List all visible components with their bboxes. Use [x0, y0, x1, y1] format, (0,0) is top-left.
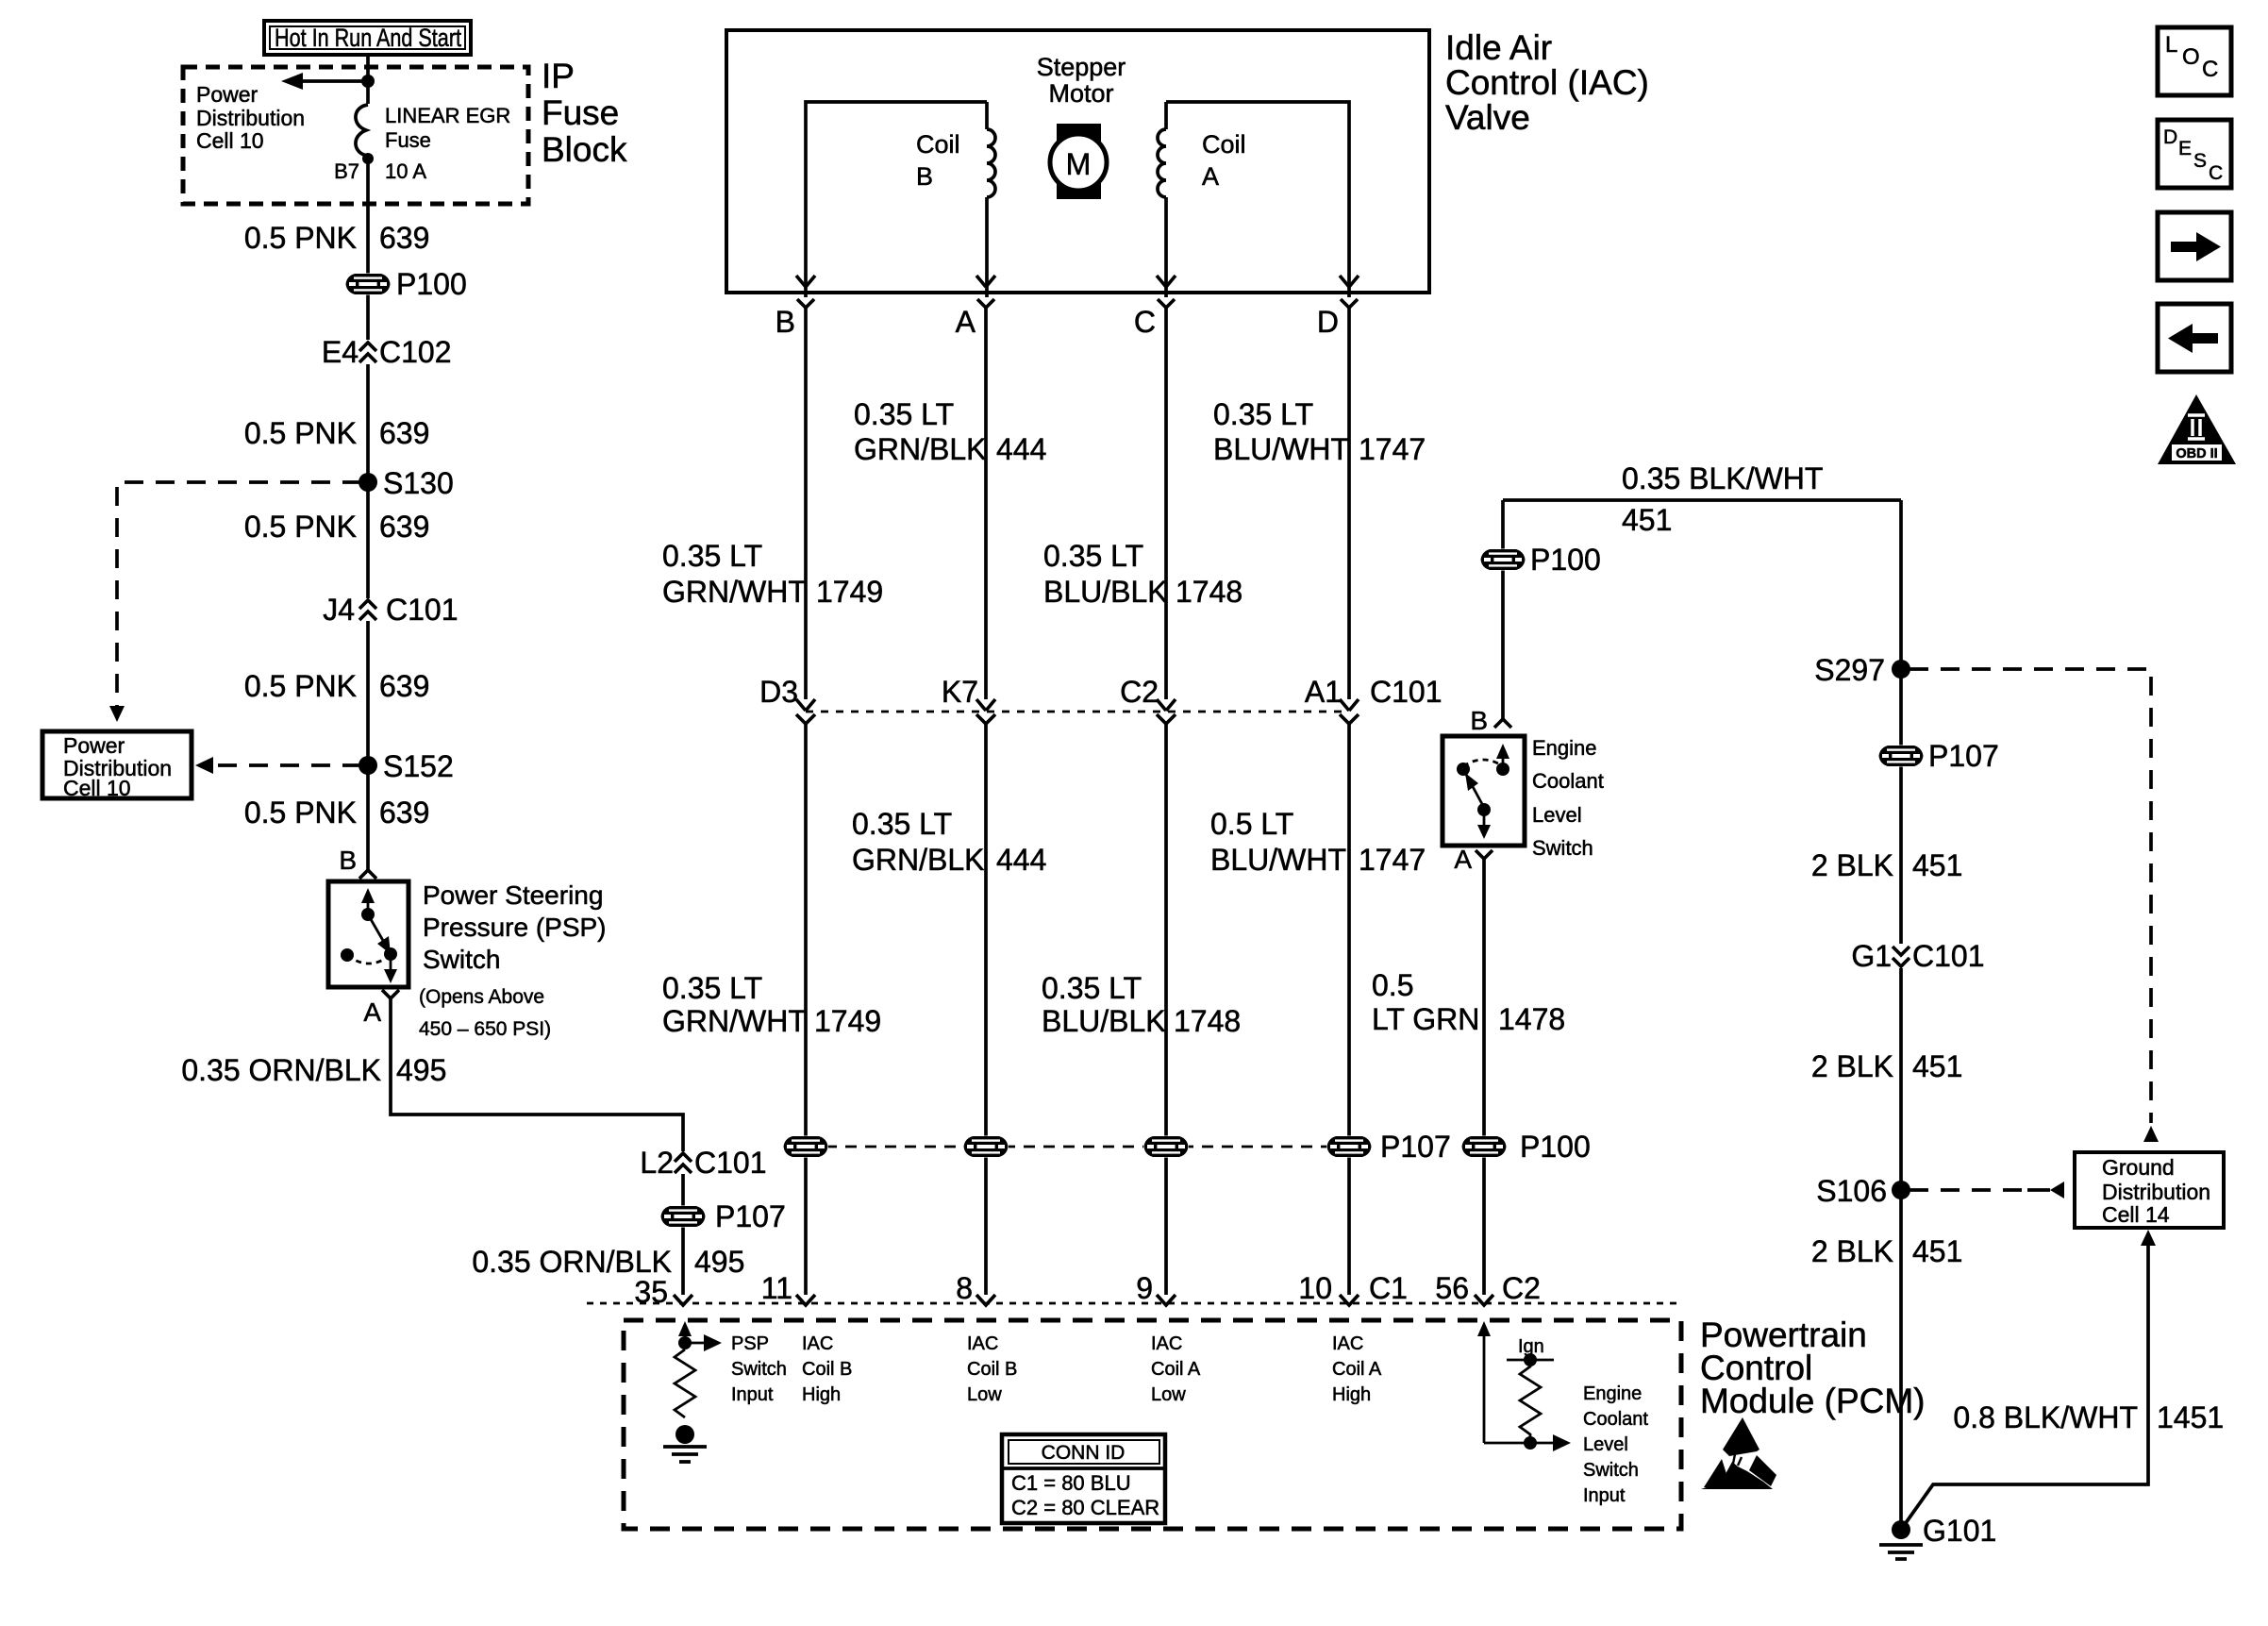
svg-text:639: 639 — [379, 221, 429, 255]
svg-text:B: B — [916, 162, 933, 191]
svg-text:0.35 BLK/WHT: 0.35 BLK/WHT — [1622, 461, 1823, 495]
svg-text:11: 11 — [761, 1271, 792, 1305]
svg-text:639: 639 — [379, 510, 429, 544]
svg-text:E: E — [2178, 138, 2192, 159]
svg-text:Distribution: Distribution — [2102, 1180, 2210, 1204]
svg-text:IP: IP — [542, 57, 575, 95]
svg-text:A: A — [956, 305, 976, 339]
svg-text:G1: G1 — [1851, 939, 1892, 973]
svg-text:0.35 LT: 0.35 LT — [1213, 397, 1313, 431]
svg-text:Cell 10: Cell 10 — [196, 128, 264, 153]
svg-text:Control (IAC): Control (IAC) — [1445, 63, 1649, 102]
svg-text:Module (PCM): Module (PCM) — [1700, 1382, 1926, 1420]
svg-text:High: High — [1332, 1384, 1371, 1405]
svg-text:C: C — [1134, 305, 1156, 339]
svg-text:Distribution: Distribution — [196, 106, 305, 130]
svg-text:Ground: Ground — [2102, 1155, 2175, 1180]
svg-text:Hot In Run And Start: Hot In Run And Start — [275, 24, 461, 52]
svg-text:1748: 1748 — [1176, 575, 1242, 609]
svg-text:P100: P100 — [396, 267, 467, 301]
svg-text:L2: L2 — [640, 1146, 674, 1180]
svg-text:0.35 ORN/BLK: 0.35 ORN/BLK — [472, 1245, 672, 1279]
svg-text:0.35 LT: 0.35 LT — [854, 397, 954, 431]
svg-text:C101: C101 — [386, 593, 459, 627]
svg-text:Level: Level — [1532, 803, 1582, 827]
svg-text:GRN/BLK: GRN/BLK — [852, 843, 984, 877]
svg-text:Coil A: Coil A — [1151, 1359, 1201, 1380]
svg-text:O: O — [2182, 44, 2200, 70]
svg-text:0.5: 0.5 — [1372, 968, 1413, 1002]
svg-text:Cell 14: Cell 14 — [2102, 1202, 2170, 1227]
svg-text:0.5 PNK: 0.5 PNK — [244, 416, 357, 450]
svg-text:P107: P107 — [1928, 739, 1999, 773]
svg-text:8: 8 — [956, 1271, 973, 1305]
svg-text:0.35 LT: 0.35 LT — [662, 971, 762, 1005]
svg-text:Level: Level — [1583, 1434, 1628, 1455]
svg-text:1747: 1747 — [1359, 432, 1426, 466]
svg-text:Fuse: Fuse — [542, 93, 619, 132]
svg-text:1478: 1478 — [1498, 1002, 1565, 1036]
svg-text:35: 35 — [634, 1275, 668, 1309]
svg-text:A: A — [1454, 845, 1472, 874]
svg-text:IAC: IAC — [1332, 1333, 1363, 1354]
svg-text:Switch: Switch — [423, 945, 500, 974]
svg-text:0.35 LT: 0.35 LT — [1042, 971, 1142, 1005]
svg-text:Switch: Switch — [1532, 836, 1593, 860]
svg-text:2 BLK: 2 BLK — [1811, 848, 1893, 882]
svg-text:A1: A1 — [1305, 675, 1342, 709]
svg-text:Stepper: Stepper — [1037, 53, 1126, 81]
svg-text:G101: G101 — [1923, 1514, 1996, 1548]
svg-text:1451: 1451 — [2157, 1400, 2224, 1434]
svg-text:495: 495 — [396, 1053, 446, 1087]
svg-text:450 – 650 PSI): 450 – 650 PSI) — [419, 1018, 551, 1040]
svg-text:S130: S130 — [383, 466, 454, 500]
svg-text:0.5 LT: 0.5 LT — [1210, 807, 1293, 841]
svg-text:LINEAR EGR: LINEAR EGR — [385, 104, 510, 127]
svg-text:Block: Block — [542, 130, 627, 169]
svg-text:C1: C1 — [1369, 1271, 1408, 1305]
svg-text:0.35 ORN/BLK: 0.35 ORN/BLK — [181, 1053, 381, 1087]
svg-text:Input: Input — [731, 1384, 774, 1405]
svg-text:Coil: Coil — [916, 130, 960, 159]
svg-text:GRN/WHT: GRN/WHT — [662, 575, 807, 609]
svg-text:GRN/WHT: GRN/WHT — [662, 1004, 807, 1038]
svg-text:BLU/WHT: BLU/WHT — [1210, 843, 1346, 877]
svg-text:P100: P100 — [1530, 543, 1601, 577]
svg-text:0.35 LT: 0.35 LT — [852, 807, 952, 841]
svg-text:Valve: Valve — [1445, 98, 1530, 137]
svg-text:BLU/BLK: BLU/BLK — [1043, 575, 1168, 609]
svg-text:C101: C101 — [1370, 675, 1443, 709]
svg-text:Input: Input — [1583, 1485, 1626, 1506]
svg-text:E4: E4 — [322, 335, 359, 369]
svg-text:2 BLK: 2 BLK — [1811, 1049, 1893, 1083]
svg-text:P107: P107 — [715, 1199, 786, 1233]
svg-text:1747: 1747 — [1359, 843, 1426, 877]
svg-text:S297: S297 — [1814, 653, 1885, 687]
svg-text:1748: 1748 — [1174, 1004, 1241, 1038]
svg-text:LT GRN: LT GRN — [1372, 1002, 1479, 1036]
svg-text:A: A — [363, 997, 381, 1027]
svg-text:CONN ID: CONN ID — [1042, 1442, 1126, 1464]
svg-text:D3: D3 — [759, 675, 798, 709]
svg-text:Switch: Switch — [731, 1359, 787, 1380]
svg-text:Cell 10: Cell 10 — [63, 776, 131, 800]
svg-text:Low: Low — [1151, 1384, 1186, 1405]
svg-text:0.5 PNK: 0.5 PNK — [244, 510, 357, 544]
svg-text:Coolant: Coolant — [1532, 769, 1604, 793]
svg-text:S106: S106 — [1816, 1174, 1887, 1208]
svg-text:10 A: 10 A — [385, 159, 426, 183]
svg-text:Motor: Motor — [1048, 79, 1113, 108]
svg-text:C2 = 80 CLEAR: C2 = 80 CLEAR — [1011, 1496, 1159, 1519]
svg-text:(Opens Above: (Opens Above — [419, 986, 544, 1008]
svg-text:Power: Power — [63, 733, 125, 758]
svg-text:Coil: Coil — [1202, 130, 1246, 159]
svg-text:A: A — [1202, 162, 1219, 191]
svg-text:Coolant: Coolant — [1583, 1409, 1648, 1430]
svg-text:1749: 1749 — [814, 1004, 881, 1038]
svg-text:C101: C101 — [1912, 939, 1985, 973]
svg-text:0.8 BLK/WHT: 0.8 BLK/WHT — [1953, 1400, 2138, 1434]
svg-text:444: 444 — [996, 432, 1046, 466]
svg-text:0.35 LT: 0.35 LT — [662, 539, 762, 573]
svg-text:Coil A: Coil A — [1332, 1359, 1382, 1380]
svg-text:451: 451 — [1912, 848, 1962, 882]
svg-text:High: High — [802, 1384, 841, 1405]
svg-text:B: B — [1470, 706, 1488, 735]
svg-text:M: M — [1066, 147, 1092, 181]
svg-text:C2: C2 — [1120, 675, 1159, 709]
svg-text:Switch: Switch — [1583, 1460, 1639, 1481]
svg-text:C: C — [2209, 162, 2223, 184]
svg-text:0.5 PNK: 0.5 PNK — [244, 669, 357, 703]
svg-text:0.35 LT: 0.35 LT — [1043, 539, 1143, 573]
svg-text:Engine: Engine — [1583, 1383, 1642, 1404]
svg-text:OBD II: OBD II — [2176, 446, 2217, 461]
svg-text:C102: C102 — [379, 335, 452, 369]
svg-text:2 BLK: 2 BLK — [1811, 1234, 1893, 1268]
svg-text:IAC: IAC — [1151, 1333, 1182, 1354]
svg-text:451: 451 — [1912, 1234, 1962, 1268]
svg-text:495: 495 — [694, 1245, 744, 1279]
svg-text:Fuse: Fuse — [385, 128, 431, 152]
svg-text:639: 639 — [379, 669, 429, 703]
svg-text:C2: C2 — [1502, 1271, 1541, 1305]
svg-text:10: 10 — [1298, 1271, 1332, 1305]
svg-text:IAC: IAC — [967, 1333, 998, 1354]
svg-text:0.5 PNK: 0.5 PNK — [244, 221, 357, 255]
svg-text:PSP: PSP — [731, 1333, 769, 1354]
svg-text:L: L — [2165, 32, 2177, 58]
svg-text:451: 451 — [1622, 503, 1672, 537]
svg-text:9: 9 — [1136, 1271, 1153, 1305]
svg-text:444: 444 — [996, 843, 1046, 877]
svg-text:Coil B: Coil B — [802, 1359, 852, 1380]
svg-text:Idle Air: Idle Air — [1445, 28, 1552, 67]
svg-text:P100: P100 — [1520, 1130, 1591, 1164]
svg-text:S: S — [2193, 150, 2207, 172]
svg-text:B7: B7 — [334, 159, 359, 183]
svg-text:K7: K7 — [942, 675, 978, 709]
svg-text:D: D — [2163, 126, 2177, 148]
svg-text:P107: P107 — [1380, 1130, 1451, 1164]
svg-text:C101: C101 — [694, 1146, 767, 1180]
svg-text:D: D — [1317, 305, 1339, 339]
svg-text:1749: 1749 — [816, 575, 883, 609]
svg-text:BLU/WHT: BLU/WHT — [1213, 432, 1349, 466]
svg-text:C: C — [2202, 57, 2218, 82]
svg-text:B: B — [775, 305, 795, 339]
svg-text:639: 639 — [379, 796, 429, 830]
svg-text:GRN/BLK: GRN/BLK — [854, 432, 986, 466]
svg-text:C1 = 80 BLU: C1 = 80 BLU — [1011, 1471, 1131, 1495]
svg-text:S152: S152 — [383, 749, 454, 783]
svg-text:56: 56 — [1435, 1271, 1469, 1305]
svg-text:Coil B: Coil B — [967, 1359, 1017, 1380]
svg-text:Power: Power — [196, 82, 258, 107]
svg-text:BLU/BLK: BLU/BLK — [1042, 1004, 1166, 1038]
svg-text:B: B — [339, 846, 357, 875]
svg-text:Low: Low — [967, 1384, 1002, 1405]
svg-text:0.5 PNK: 0.5 PNK — [244, 796, 357, 830]
svg-text:Power Steering: Power Steering — [423, 880, 603, 910]
svg-text:451: 451 — [1912, 1049, 1962, 1083]
svg-text:J4: J4 — [323, 593, 355, 627]
svg-text:639: 639 — [379, 416, 429, 450]
svg-text:Engine: Engine — [1532, 736, 1597, 760]
svg-text:Pressure (PSP): Pressure (PSP) — [423, 913, 607, 942]
svg-text:IAC: IAC — [802, 1333, 833, 1354]
